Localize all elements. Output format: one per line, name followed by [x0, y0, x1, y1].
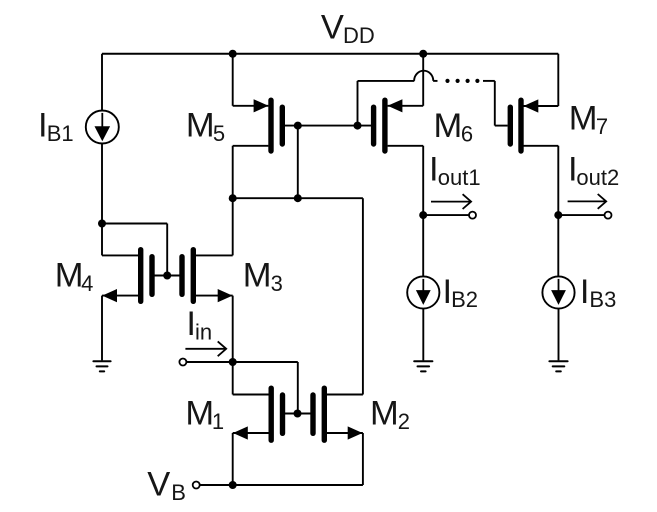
svg-text:V: V: [147, 465, 170, 503]
svg-text:M: M: [55, 256, 84, 294]
svg-text:B: B: [171, 480, 186, 505]
svg-text:5: 5: [213, 121, 225, 146]
svg-text:3: 3: [271, 271, 283, 296]
svg-text:1: 1: [212, 409, 224, 434]
svg-text:4: 4: [81, 271, 93, 296]
svg-text:7: 7: [596, 114, 608, 139]
svg-text:I: I: [580, 273, 590, 311]
svg-text:B2: B2: [451, 287, 478, 312]
svg-text:M: M: [186, 107, 215, 145]
svg-text:M: M: [569, 100, 598, 138]
svg-text:M: M: [185, 395, 214, 433]
svg-text:out2: out2: [576, 165, 619, 190]
svg-text:6: 6: [461, 121, 473, 146]
svg-text:B1: B1: [47, 121, 74, 146]
svg-text:B3: B3: [589, 287, 616, 312]
svg-text:out1: out1: [438, 165, 481, 190]
svg-text:M: M: [370, 395, 399, 433]
svg-text:2: 2: [398, 409, 410, 434]
svg-text:V: V: [321, 9, 344, 47]
svg-text:DD: DD: [343, 23, 375, 48]
svg-text:M: M: [434, 107, 463, 145]
svg-text:in: in: [195, 319, 212, 344]
svg-text:M: M: [243, 256, 272, 294]
